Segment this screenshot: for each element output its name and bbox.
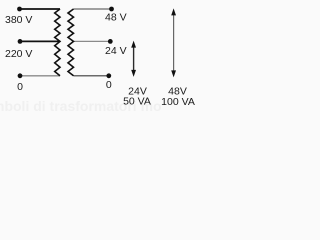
terminal node 380V — [17, 7, 22, 12]
terminal node 0 (left) — [18, 73, 23, 78]
svg-text:50 VA: 50 VA — [123, 96, 151, 108]
terminal node 48V — [109, 7, 114, 12]
terminal node 220V — [18, 39, 23, 44]
dimension arrow 24V output — [131, 41, 136, 77]
wire secondary tap to 24V — [74, 40, 111, 42]
svg-text:220 V: 220 V — [5, 48, 32, 60]
primary winding L1 — [55, 9, 60, 76]
svg-text:48 V: 48 V — [105, 12, 127, 24]
terminal node 24V — [108, 39, 113, 44]
svg-text:0: 0 — [17, 81, 23, 93]
svg-text:380 V: 380 V — [5, 14, 32, 26]
wire secondary to 48V — [74, 8, 112, 10]
svg-text:100 VA: 100 VA — [161, 96, 195, 108]
wire 380V to primary — [20, 8, 61, 10]
svg-text:24 V: 24 V — [105, 45, 127, 57]
secondary winding L2 — [68, 9, 74, 76]
dimension arrow 48V output — [171, 8, 176, 77]
svg-text:0: 0 — [106, 79, 112, 91]
wire 0 to primary bottom — [20, 75, 60, 77]
wire secondary bottom to 0 — [74, 75, 109, 77]
terminal node 0 (right) — [106, 73, 111, 78]
wire 220V to primary tap — [20, 40, 60, 42]
